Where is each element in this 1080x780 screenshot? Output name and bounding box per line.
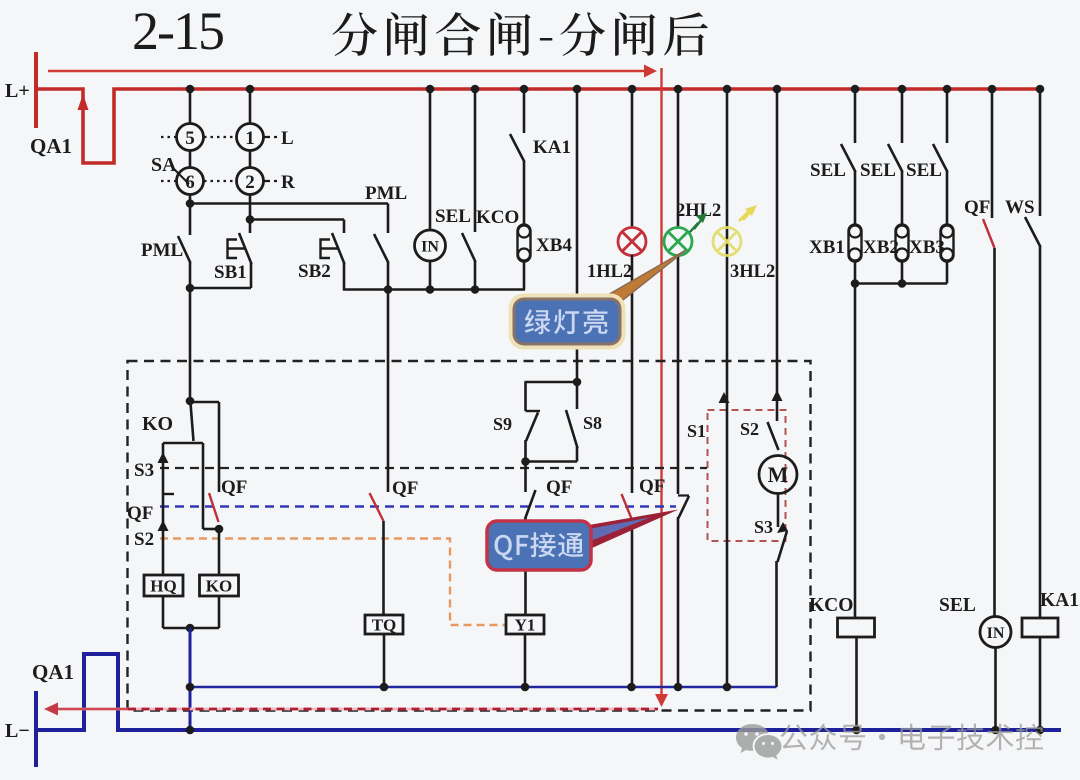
node K [215, 525, 224, 534]
wire SA6 down [189, 195, 192, 206]
svg-text:SEL: SEL [939, 595, 976, 616]
node J [186, 397, 195, 406]
coil Y1 [506, 615, 544, 634]
wire KA1 to L- [1039, 637, 1042, 730]
wire SB1 bottom to node C [189, 287, 251, 290]
junction top bus x430 [426, 85, 435, 94]
selector handle stroke [172, 167, 189, 184]
wire K links [203, 528, 219, 531]
svg-text:HQ: HQ [150, 577, 176, 596]
contact KO [191, 403, 194, 441]
wire KO top right [190, 401, 219, 404]
svg-text:SEL: SEL [810, 160, 846, 181]
wire bus to 2HL2 [677, 89, 680, 228]
contact SEL2 [888, 144, 903, 172]
node bus1 [186, 683, 195, 692]
svg-text:S3: S3 [754, 517, 773, 537]
junction top bus x632 [628, 85, 637, 94]
node bus6 [723, 683, 732, 692]
selector SA contact 5 [177, 124, 204, 151]
node bus5 [674, 683, 683, 692]
contact QF (Y1 branch) [524, 462, 527, 493]
wire K to KO coil [218, 529, 221, 575]
svg-text:5: 5 [185, 128, 195, 149]
coil KCO [838, 618, 875, 637]
svg-text:QF: QF [964, 197, 990, 218]
coil KO [200, 575, 239, 596]
svg-text:PML: PML [141, 240, 183, 261]
fuse link XB4 [518, 225, 531, 262]
wire IN to L- [994, 648, 997, 731]
contact S9 [526, 410, 541, 412]
junction top bus x727 [723, 85, 732, 94]
svg-text:KO: KO [206, 577, 232, 596]
wire bus to QF right [991, 89, 994, 218]
watermark text [781, 724, 1044, 751]
svg-text:R: R [281, 172, 295, 193]
wire TQ to bottom [383, 634, 386, 687]
selector SA contact 2 [237, 168, 264, 195]
dotted link left of 5 [161, 136, 177, 138]
travel switch S1 mark [719, 392, 730, 403]
wire SA 5-6 [189, 151, 192, 168]
svg-text:QF: QF [127, 503, 153, 524]
svg-text:1HL2: 1HL2 [587, 262, 632, 282]
svg-text:SEL: SEL [906, 160, 942, 181]
contact SEL1 [841, 144, 856, 172]
svg-text:IN: IN [987, 625, 1005, 642]
wire KO bottom [218, 596, 221, 628]
svg-text:SEL: SEL [860, 160, 896, 181]
wire coils join [163, 627, 219, 630]
svg-text:PML: PML [365, 183, 407, 204]
svg-text:S3: S3 [134, 460, 154, 481]
contact KA1 [510, 134, 525, 162]
wire red current path (vertical) [660, 68, 662, 697]
callout arrow to 2HL2 (orange wedge) [599, 250, 686, 311]
contact PML (right) [387, 204, 390, 234]
svg-text:KA1: KA1 [1040, 590, 1079, 611]
callout box QF接通 [487, 521, 591, 570]
svg-text:2-15: 2-15 [132, 1, 223, 61]
pushbutton SB2 (NC) [343, 220, 346, 234]
wire XB join [855, 282, 947, 285]
wire XB2 down [901, 261, 904, 284]
junction top bus x190 [186, 85, 195, 94]
svg-text:XB2: XB2 [863, 237, 899, 258]
svg-text:QF: QF [546, 477, 572, 498]
indicator lamp IN (top) [415, 230, 446, 261]
svg-text:IN: IN [421, 239, 439, 256]
dotted link 1-L [264, 136, 277, 138]
svg-text:QF: QF [639, 476, 665, 497]
svg-text:KA1: KA1 [533, 137, 571, 158]
node H [573, 378, 582, 387]
svg-text:SA: SA [151, 154, 177, 176]
power rail L- with QA1 notch [36, 654, 1061, 767]
svg-text:S8: S8 [583, 413, 602, 433]
wire bus to S9S8 [576, 89, 579, 383]
coil TQ [365, 615, 403, 634]
wire bus to S2 [776, 89, 779, 421]
arrowhead left (return path) [44, 703, 58, 716]
selector SA contact 1 [237, 124, 264, 151]
contact S8 [576, 382, 579, 409]
contact QF (TQ branch, open red) [387, 290, 390, 493]
svg-text:QF: QF [392, 478, 418, 499]
svg-text:QA1: QA1 [32, 660, 74, 684]
node bus4 [627, 683, 636, 692]
node E [426, 285, 435, 294]
node B [246, 215, 255, 224]
svg-text:L+: L+ [5, 80, 30, 102]
node A [186, 199, 195, 208]
node F [471, 285, 480, 294]
arrowhead down (red path) [655, 694, 668, 707]
node L [186, 624, 195, 633]
travel switch S2 mark [772, 390, 783, 401]
contact SEL (mid) [462, 233, 476, 262]
wire bus to SA-1 [249, 89, 252, 124]
node L-4 [1036, 726, 1045, 735]
selector SA contact 6 [177, 168, 204, 195]
svg-text:S2: S2 [134, 529, 154, 550]
dotted link left of 6 [161, 180, 177, 182]
junction top bus x678 [674, 85, 683, 94]
wire navy drop [189, 628, 192, 731]
wire node C down [189, 288, 192, 402]
contact WS [1025, 217, 1041, 247]
contact QF (right, open red) [983, 219, 995, 248]
svg-text:KO: KO [142, 413, 173, 435]
node I [521, 457, 530, 466]
node M1 [851, 279, 860, 288]
node M2 [898, 279, 907, 288]
wire XB3 down [946, 261, 949, 284]
junction top bus x475 [471, 85, 480, 94]
svg-text:Y1: Y1 [515, 616, 536, 635]
dashed trace S3 (black) [160, 467, 707, 469]
junction top bus x524 [520, 85, 529, 94]
junction top bus x1040 [1036, 85, 1045, 94]
junction top bus x992 [988, 85, 997, 94]
dashed trace QF (blue) [160, 505, 676, 508]
wire bus to SA-5 [189, 89, 192, 124]
callout arrow to QF (maroon wedge) [583, 510, 679, 553]
svg-text:L−: L− [5, 720, 30, 742]
contact QF tick left [163, 493, 174, 495]
travel switch S2 mark left [158, 520, 169, 531]
arrow yellow flash [739, 210, 752, 221]
wire bus to SEL [474, 89, 477, 232]
wire SA2 down [249, 195, 252, 222]
dotted link 6-2 [204, 180, 236, 182]
svg-text:3HL2: 3HL2 [730, 262, 775, 282]
svg-text:L: L [281, 128, 294, 149]
wire to KCO coil [854, 284, 857, 619]
contact PML (left) [189, 204, 192, 236]
travel switch S3 mark [777, 522, 788, 533]
junction top bus x777 [773, 85, 782, 94]
svg-text:2: 2 [245, 172, 255, 193]
wire HQ bottom [162, 596, 165, 628]
coil HQ [144, 575, 183, 596]
wire bus to SEL2 [901, 89, 904, 143]
svg-text:SEL: SEL [435, 206, 471, 227]
wire bus to 3HL2 [726, 89, 729, 687]
contact QF (1HL2 branch, open red) [622, 494, 633, 521]
wire bus to 1HL2 [631, 89, 634, 228]
svg-text:SB1: SB1 [214, 262, 247, 283]
contact SEL3 [933, 144, 948, 172]
wire bus to SEL1 [854, 89, 857, 143]
node bus2 [380, 683, 389, 692]
arrowhead right (thin red) [644, 65, 657, 78]
arrow green flash [690, 219, 702, 232]
svg-text:S1: S1 [687, 421, 706, 441]
svg-text:1: 1 [245, 128, 255, 149]
svg-text:XB1: XB1 [809, 237, 845, 258]
dashed trace S2 (orange) [160, 539, 505, 626]
travel switch S3 mark left [158, 452, 169, 463]
wire thin red current path (top) [48, 70, 646, 72]
wire bus to WS [1039, 89, 1042, 216]
wire 1HL2 down [631, 255, 634, 493]
svg-text:XB4: XB4 [536, 235, 572, 256]
node D [384, 285, 393, 294]
indicator lamp IN (bottom) [980, 617, 1011, 648]
wire return path dashed (dark red) [128, 708, 658, 711]
node bus3 [521, 683, 530, 692]
svg-text:KCO: KCO [476, 207, 519, 228]
svg-text:TQ: TQ [372, 616, 397, 635]
coil KA1 [1022, 618, 1058, 637]
wire bus to SEL3 [946, 89, 949, 143]
svg-text:QF: QF [221, 477, 247, 498]
junction top bus x250 [246, 85, 255, 94]
wire mid sub-bus [343, 288, 525, 291]
svg-text:M: M [768, 462, 789, 487]
svg-text:WS: WS [1005, 197, 1035, 218]
svg-text:S9: S9 [493, 414, 512, 434]
junction top bus x947 [943, 85, 952, 94]
wire left leg [162, 443, 165, 575]
junction top bus x855 [851, 85, 860, 94]
node L-1 [186, 726, 195, 735]
wire bus to IN [429, 89, 432, 231]
lamp 2HL2 (green) [664, 228, 692, 256]
wire Y1 to bottom [524, 634, 527, 687]
svg-text:QA1: QA1 [30, 134, 72, 158]
contact QF (KO branch, open red) [209, 493, 219, 522]
svg-text:XB3: XB3 [909, 237, 945, 258]
fuse link XB2 [896, 225, 909, 262]
svg-text:KCO: KCO [809, 595, 853, 616]
motor M [759, 456, 797, 494]
arrow up on QA1 leg [78, 94, 89, 110]
wire XB4 to sub-bus [523, 261, 526, 290]
dotted link 5-1 [204, 136, 236, 138]
dashed box (motor S1 S2 S3) [708, 410, 786, 541]
watermark wechat logo [736, 724, 782, 760]
contact S3 [778, 531, 788, 562]
wire IN to node E [429, 261, 432, 290]
junction top bus x902 [898, 85, 907, 94]
callout box 绿灯亮 [511, 296, 624, 348]
wire node A to PML right [190, 202, 388, 205]
lamp 1HL2 (red) [618, 228, 646, 256]
breaker QA1 (top pole, red bus with notch) [36, 89, 1041, 163]
contact QF (2HL2 branch, closed) [677, 255, 680, 494]
wire S9 top link [525, 381, 578, 384]
wire node B to SB2 [250, 218, 344, 221]
lamp 3HL2 (yellow) [713, 228, 741, 256]
wire KCO to L- [855, 637, 858, 730]
pushbutton SB1 (NC) [249, 220, 252, 234]
title CJK 分闸合闸-分闸后 [332, 12, 707, 56]
wire M to S3 [777, 494, 780, 528]
junction top bus x577 [573, 85, 582, 94]
fuse link XB1 [849, 225, 862, 262]
dashed enclosure box [128, 361, 811, 711]
fuse link XB3 [941, 225, 954, 262]
contact S2 [768, 422, 779, 450]
node L-3 [991, 726, 1000, 735]
svg-text:S2: S2 [740, 419, 759, 439]
wire bus to KA1 [523, 89, 526, 133]
wire XB1 down [854, 261, 857, 284]
svg-text:SB2: SB2 [298, 261, 331, 282]
wire return path underlay (pink) [50, 708, 658, 711]
node L-2 [852, 726, 861, 735]
wire SA 1-2 [249, 151, 252, 168]
wire S8 bottom link [526, 460, 578, 463]
wire return path solid [50, 708, 128, 710]
wire internal bottom bus (navy) [190, 686, 777, 689]
dotted link 2-R [264, 180, 277, 182]
power rail L+ terminal [34, 52, 38, 128]
